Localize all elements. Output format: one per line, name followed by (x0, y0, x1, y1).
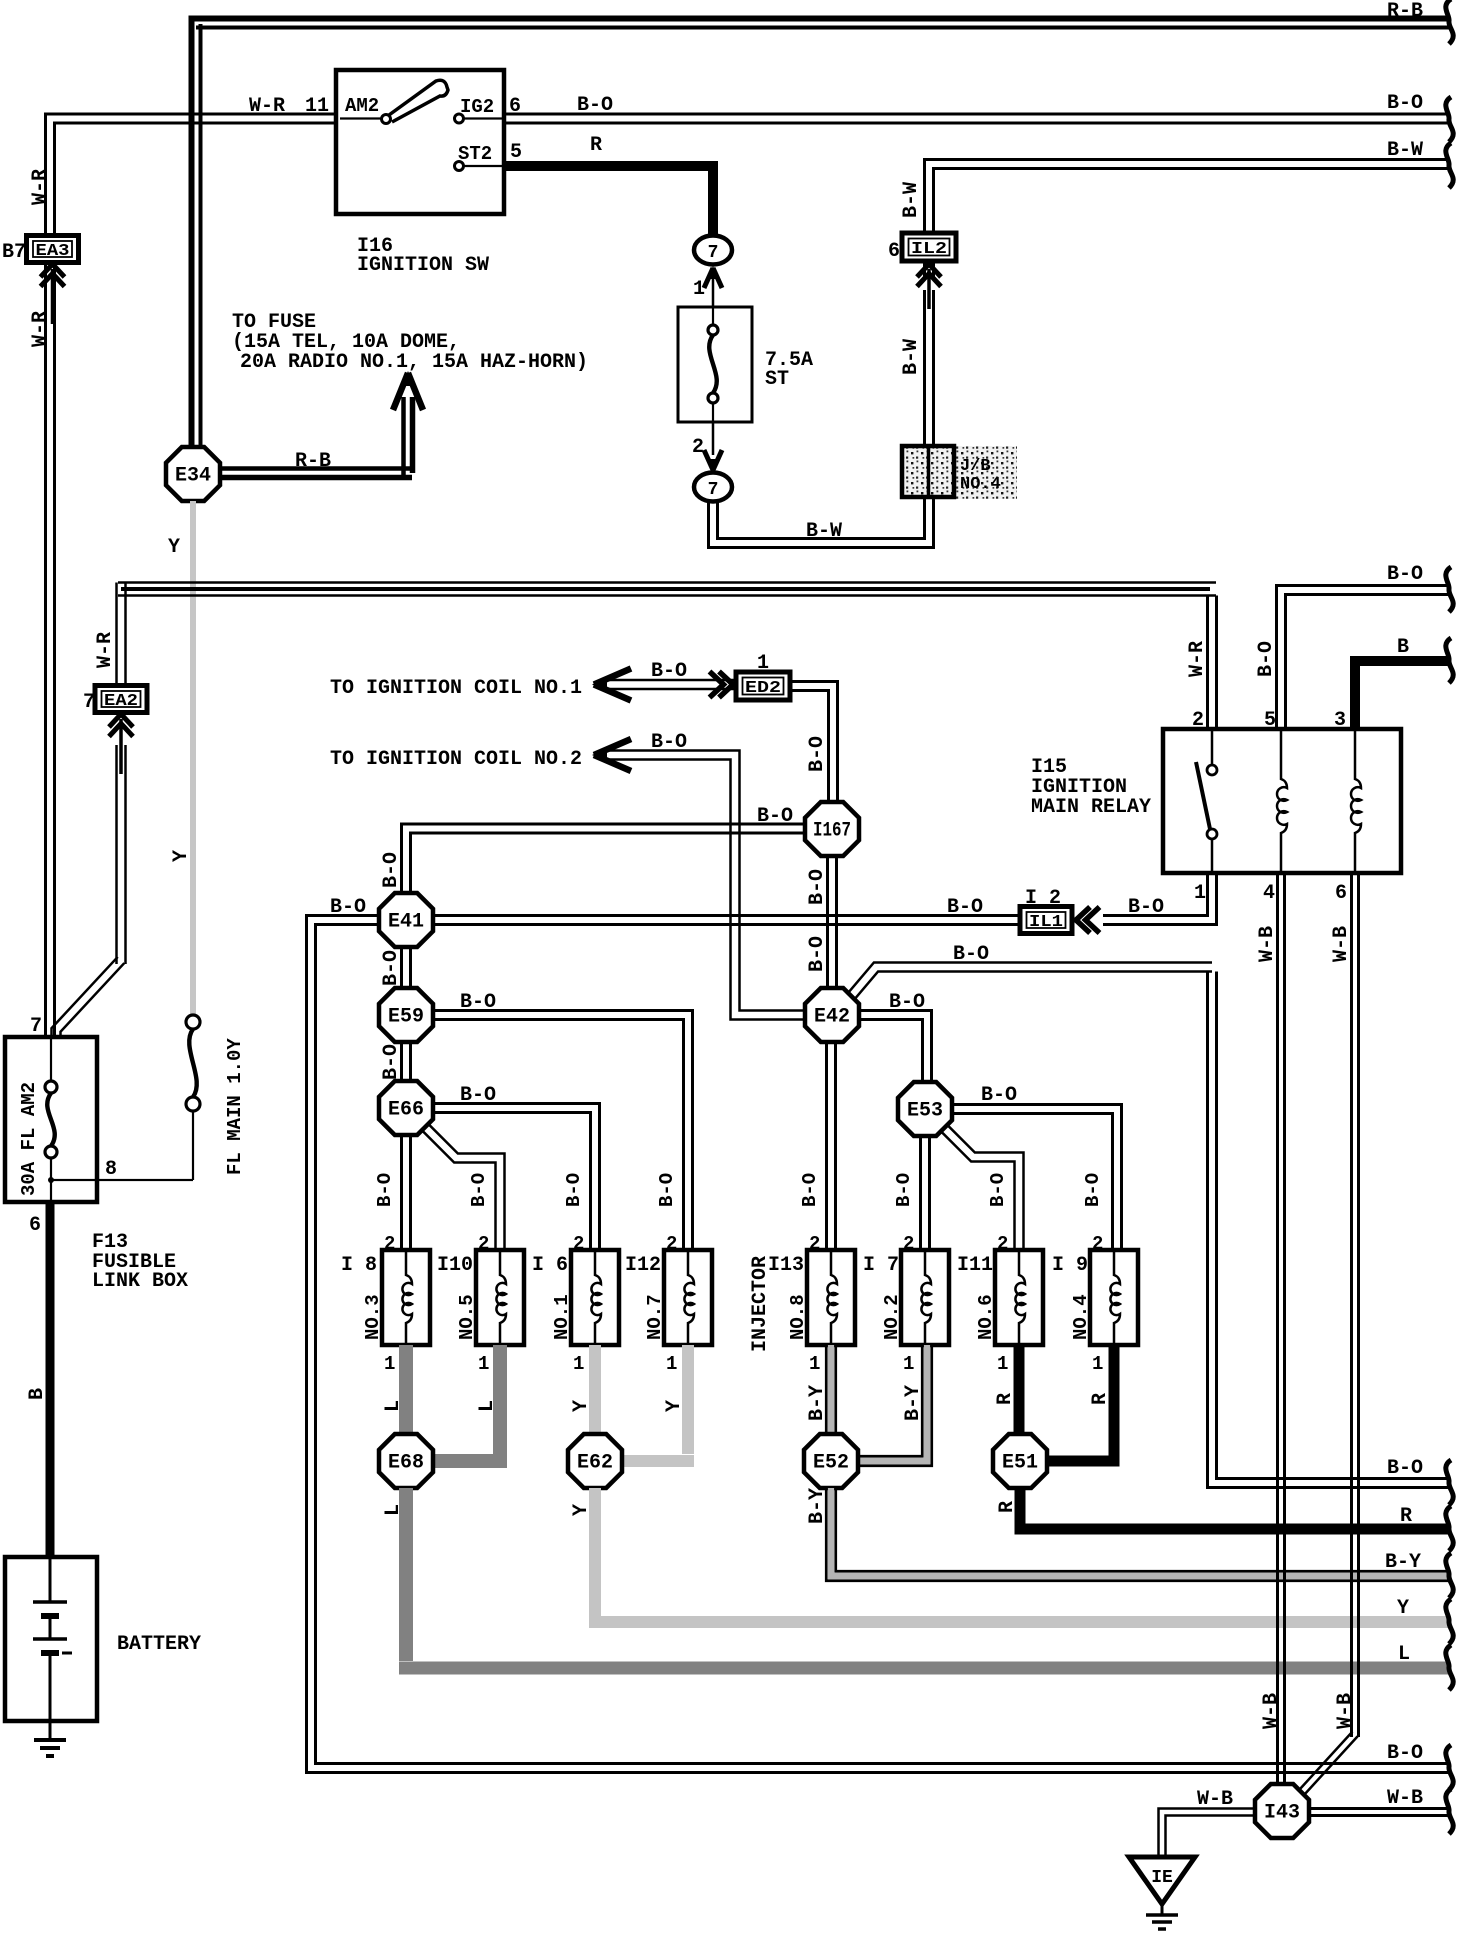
wire B-O (relay pin 5 to right edge) (1277, 586, 1450, 730)
injector I7 NO.2 (901, 1250, 949, 1345)
svg-text:W-B: W-B (1260, 1693, 1283, 1729)
svg-text:1: 1 (903, 1353, 914, 1375)
svg-text:W-R: W-R (29, 311, 52, 347)
svg-text:ST: ST (765, 368, 789, 391)
wire B-O (ED2 right, corner down to I167) (790, 682, 838, 803)
wire R-B trunk (top edge to right, corner down to E34) (192, 16, 1449, 22)
svg-text:5: 5 (510, 141, 522, 164)
wire L (injector NO.5 pin1 down, corner left to E68) (493, 1345, 507, 1454)
svg-text:I 7: I 7 (863, 1254, 899, 1277)
wire L (injector NO.3 pin1 down to E68) (399, 1345, 413, 1436)
wire (fuse junction to pin 8 and FL MAIN fuse) (51, 1179, 193, 1181)
svg-text:1: 1 (384, 1353, 395, 1375)
svg-text:E62: E62 (577, 1452, 613, 1475)
page connector arc W-B (1446, 1789, 1453, 1834)
page connector arc B-O (relay row) (1446, 567, 1453, 612)
svg-text:NO.2: NO.2 (881, 1294, 903, 1340)
svg-text:6: 6 (1335, 882, 1347, 905)
svg-text:B-W: B-W (900, 339, 923, 375)
svg-text:B-O: B-O (987, 1173, 1009, 1207)
svg-text:B-O: B-O (806, 869, 829, 905)
svg-text:1: 1 (693, 278, 705, 301)
battery box (5, 1557, 97, 1721)
connector IL2 (902, 233, 956, 261)
svg-text:I10: I10 (437, 1254, 473, 1277)
wire B-O (E42 down to injector NO.8) (825, 1042, 828, 1250)
terminal IG2 (455, 114, 464, 123)
svg-text:AM2: AM2 (345, 95, 379, 117)
svg-text:ST2: ST2 (458, 143, 492, 165)
wire Y (injector NO.1 pin1 down to E62) (589, 1345, 601, 1436)
svg-text:E66: E66 (388, 1099, 424, 1122)
injector I11 NO.6 (995, 1250, 1043, 1345)
wire B-Y (E52 down, corner right to right edge) (831, 1488, 1449, 1576)
svg-text:R: R (996, 1501, 1019, 1513)
wire W-R (EA2 down + diagonal to fusible link pin 7) (115, 745, 118, 964)
svg-text:6: 6 (888, 240, 900, 263)
wire B-O (E66 right, corner down to injector NO.1) (433, 1104, 600, 1251)
wire B-O (E53 diagonal to injector NO.6) (946, 1124, 1023, 1250)
svg-text:I11: I11 (957, 1254, 993, 1277)
wire B-O (ED2 to ignition coil NO.1, double-ended arrow) (600, 679, 736, 682)
svg-text:B-O: B-O (1387, 563, 1423, 586)
wire B-O (corner left of E41, down and along bottom to right edge) (316, 925, 1450, 1764)
svg-text:I13: I13 (768, 1254, 804, 1277)
connector EA2 (95, 686, 147, 713)
connector E68 (octagon) (379, 1434, 433, 1488)
svg-text:NO.4: NO.4 (960, 475, 1001, 494)
arrow down out of fuse (712, 422, 715, 455)
svg-text:NO.1: NO.1 (551, 1294, 573, 1340)
page connector arc B-O (IG2 row) (1446, 97, 1453, 142)
wire R (E51 down, corner right to right edge) (1020, 1488, 1449, 1529)
svg-text:E51: E51 (1002, 1452, 1038, 1475)
svg-text:B-O: B-O (374, 1173, 396, 1207)
connector E62 (octagon) (568, 1434, 622, 1488)
wire B-O (relay pin 1 down to IL1) (1103, 873, 1217, 925)
svg-text:1: 1 (478, 1353, 489, 1375)
svg-text:W-R: W-R (94, 632, 117, 668)
ignition switch I16 box (336, 70, 504, 214)
svg-text:NO.3: NO.3 (362, 1294, 384, 1340)
page connector arc R-B (right edge) (1446, 0, 1453, 44)
wire R (ST2 to 7.5A ST fuse, thick) (504, 166, 713, 238)
arrow chevrons below IL2 (917, 264, 941, 277)
wire Y (injector NO.7 pin1 down, corner left to E62) (682, 1345, 694, 1454)
svg-text:B-O: B-O (577, 94, 613, 117)
switch lever (AM2) (382, 115, 391, 124)
svg-text:E59: E59 (388, 1006, 424, 1029)
page connector arc B-O (E42 row) (1446, 1460, 1453, 1505)
svg-text:R: R (1089, 1393, 1112, 1405)
svg-text:1: 1 (666, 1353, 677, 1375)
injector I8 NO.3 (382, 1250, 430, 1345)
svg-text:FL MAIN 1.0Y: FL MAIN 1.0Y (224, 1038, 246, 1175)
svg-text:L: L (382, 1400, 405, 1412)
connector E41 (octagon) (379, 893, 433, 947)
ground symbol (IE) (1161, 1904, 1164, 1914)
svg-text:TO IGNITION COIL NO.2: TO IGNITION COIL NO.2 (330, 748, 582, 771)
svg-text:MAIN RELAY: MAIN RELAY (1031, 796, 1151, 819)
svg-text:B-O: B-O (893, 1173, 915, 1207)
svg-text:IE: IE (1151, 1868, 1173, 1888)
wire B-O (E66 diagonal to injector NO.5) (427, 1123, 504, 1250)
page connector arc L (1446, 1645, 1453, 1690)
arrow up into circle 7 (712, 268, 715, 307)
connector E59 (octagon) (379, 988, 433, 1042)
svg-text:W-R: W-R (1186, 641, 1209, 677)
wire B (F13 to battery, thick) (46, 1202, 55, 1557)
connector circle 7 (upper) (694, 236, 732, 265)
svg-text:7: 7 (708, 480, 719, 500)
connector E42 (octagon) (805, 988, 859, 1042)
wire B-O (E53 right, corner down to injector NO.4) (951, 1105, 1122, 1251)
svg-text:IGNITION SW: IGNITION SW (357, 254, 489, 277)
svg-text:B-O: B-O (806, 936, 829, 972)
svg-text:E42: E42 (814, 1006, 850, 1029)
svg-text:B-O: B-O (1255, 641, 1278, 677)
wire B-Y (injector NO.8 pin1 down to E52) (828, 1345, 834, 1436)
svg-text:NO.7: NO.7 (644, 1294, 666, 1340)
svg-text:Y: Y (570, 1400, 593, 1412)
svg-text:B-Y: B-Y (902, 1385, 925, 1421)
svg-text:Y: Y (170, 850, 193, 862)
svg-text:R: R (1400, 1505, 1412, 1528)
svg-text:L: L (382, 1504, 405, 1516)
svg-text:I 2: I 2 (1025, 887, 1061, 910)
injector I13 NO.8 (807, 1250, 855, 1345)
wire W-B (I43 left, corner down to IE) (1166, 1816, 1256, 1857)
arrow chevrons below EA3 (41, 264, 65, 277)
svg-text:Y: Y (168, 536, 180, 559)
svg-text:I 6: I 6 (532, 1254, 568, 1277)
wire B-O (E53 down to injector NO.2) (919, 1136, 922, 1250)
svg-text:20A RADIO NO.1, 15A HAZ-HORN): 20A RADIO NO.1, 15A HAZ-HORN) (240, 351, 588, 374)
svg-text:B-O: B-O (656, 1173, 678, 1207)
page connector arc B (1446, 638, 1453, 683)
svg-text:B-O: B-O (981, 1084, 1017, 1107)
page connector arc B-W (1446, 143, 1453, 188)
svg-text:7: 7 (708, 243, 719, 263)
svg-text:2: 2 (384, 1233, 395, 1255)
svg-text:B-O: B-O (1128, 896, 1164, 919)
wire B-O (to ignition coil NO.2, corner down to E42 row) (600, 751, 805, 1011)
svg-text:B-Y: B-Y (1385, 1551, 1421, 1574)
arrow chevrons at IL1 (1076, 907, 1090, 933)
svg-text:E41: E41 (388, 911, 424, 934)
svg-text:TO IGNITION COIL NO.1: TO IGNITION COIL NO.1 (330, 677, 582, 700)
svg-text:7: 7 (30, 1015, 42, 1038)
svg-text:B-O: B-O (563, 1173, 585, 1207)
wire B-Y (injector NO.2 pin1 down, corner left to E52) (856, 1345, 927, 1461)
svg-text:B-O: B-O (1387, 1742, 1423, 1765)
wire B-O (E66 down to injector NO.3) (400, 1135, 403, 1250)
svg-text:L: L (476, 1400, 499, 1412)
svg-text:EA2: EA2 (104, 692, 138, 711)
terminal ST2 (455, 162, 464, 171)
connector I167 (octagon) (805, 802, 859, 856)
svg-text:B-O: B-O (1387, 92, 1423, 115)
svg-text:E34: E34 (175, 465, 211, 488)
svg-text:B-O: B-O (889, 991, 925, 1014)
wire B-O (E42 diagonal up-right, to right edge via bottom corner) (845, 963, 1212, 998)
svg-text:E53: E53 (907, 1100, 943, 1123)
wire W-R (corner above EA2 to ignition main relay pin 2) (118, 581, 1216, 584)
svg-text:R: R (590, 134, 602, 157)
wire B-O (E41 row horizontal to IL1) (433, 914, 1021, 917)
page connector arc B-O (bottom row) (1446, 1745, 1453, 1790)
svg-text:2: 2 (692, 436, 704, 459)
connector ED2 (736, 672, 790, 700)
wire Y (E62 down, corner right to right edge) (589, 1488, 601, 1616)
svg-text:B-O: B-O (330, 896, 366, 919)
svg-text:I 8: I 8 (341, 1254, 377, 1277)
svg-text:IL1: IL1 (1029, 913, 1063, 932)
fuse FL MAIN 1.0Y (186, 1015, 200, 1029)
relay I15 box (1163, 729, 1401, 873)
svg-text:1: 1 (997, 1353, 1008, 1375)
svg-text:NO.6: NO.6 (975, 1294, 997, 1340)
svg-text:W-R: W-R (29, 169, 52, 205)
svg-text:B-Y: B-Y (806, 1488, 829, 1524)
connector E53 (octagon) (898, 1082, 952, 1136)
wire B-O (E42 right, corner down to E53) (859, 1011, 932, 1083)
svg-text:I167: I167 (813, 820, 851, 843)
connector E52 (octagon) (804, 1434, 858, 1488)
svg-text:B-O: B-O (651, 731, 687, 754)
wire B-O (IG2 to right edge) (504, 113, 1449, 116)
svg-text:1: 1 (1194, 882, 1206, 905)
connector I43 (octagon) (1255, 1784, 1309, 1838)
svg-text:2: 2 (997, 1233, 1008, 1255)
svg-text:B-W: B-W (806, 520, 842, 543)
wire W-B (relay pin 6 down, diagonal into I43) (1350, 873, 1353, 1737)
svg-text:Y: Y (663, 1400, 686, 1412)
junction block J/B NO.4 (955, 446, 1017, 499)
connector EA3 (27, 236, 79, 263)
svg-text:4: 4 (1263, 882, 1275, 905)
svg-text:NO.5: NO.5 (456, 1294, 478, 1340)
connector E34 (octagon) (166, 447, 220, 501)
svg-text:Y: Y (570, 1504, 593, 1516)
svg-text:B-O: B-O (757, 805, 793, 828)
svg-text:7: 7 (83, 691, 95, 714)
svg-text:ED2: ED2 (745, 679, 781, 698)
svg-text:W-B: W-B (1334, 1693, 1357, 1729)
svg-text:B-O: B-O (460, 1084, 496, 1107)
svg-text:W-B: W-B (1197, 1788, 1233, 1811)
arrow chevrons below EA2 (109, 714, 133, 727)
injector I6 NO.1 (571, 1250, 619, 1345)
wire R (injector NO.6 pin1 down to E51) (1014, 1345, 1025, 1436)
wire B-O (E59 right, corner down to injector NO.7) (433, 1011, 693, 1251)
arrow to fuse block (393, 373, 408, 410)
svg-text:8: 8 (105, 1158, 117, 1181)
svg-text:BATTERY: BATTERY (117, 1633, 201, 1656)
svg-text:B-O: B-O (1387, 1457, 1423, 1480)
svg-text:1: 1 (757, 652, 769, 675)
wire W-R (AM2 pin11 horizontal + left vertical to fusible link box) (55, 123, 337, 1037)
svg-text:R-B: R-B (295, 450, 331, 473)
svg-text:B-W: B-W (900, 182, 923, 218)
svg-text:E68: E68 (388, 1452, 424, 1475)
fuse 30A FL AM2 (element) (50, 1037, 52, 1081)
wire B-O (E41 down to E59) (400, 947, 403, 988)
svg-text:1: 1 (809, 1353, 820, 1375)
wire Y (E34 to FL MAIN fuse) (190, 501, 196, 1016)
svg-text:2: 2 (478, 1233, 489, 1255)
injector I9 NO.4 (1090, 1250, 1138, 1345)
svg-text:B-O: B-O (806, 736, 829, 772)
fuse 7.5A ST box (678, 307, 752, 422)
svg-text:W-B: W-B (1256, 926, 1279, 962)
svg-text:B-O: B-O (460, 991, 496, 1014)
relay switch contacts (1211, 729, 1214, 764)
wire B-O (E59 down to E66) (400, 1042, 403, 1081)
relay coil (pins 3-6) (1351, 729, 1361, 873)
svg-text:IL2: IL2 (911, 240, 947, 259)
wire B-O (E41 up, corner right to I167) (402, 824, 806, 893)
wire R-B (E34 to TO FUSE arrow) (215, 466, 412, 471)
injector I10 NO.5 (476, 1250, 524, 1345)
svg-text:I 9: I 9 (1052, 1254, 1088, 1277)
svg-text:B-O: B-O (651, 660, 687, 683)
svg-text:B-Y: B-Y (806, 1385, 829, 1421)
svg-text:6: 6 (509, 95, 521, 118)
svg-text:L: L (1398, 1643, 1410, 1666)
svg-text:B-O: B-O (953, 943, 989, 966)
svg-text:B-O: B-O (380, 950, 403, 986)
wire L (E68 down, corner right to right edge) (399, 1488, 413, 1661)
wire W-B (relay pin 4 down to I43) (1276, 873, 1279, 1790)
svg-text:LINK BOX: LINK BOX (92, 1270, 188, 1293)
wire B (right edge to relay pin 3, thick) (1355, 661, 1449, 729)
relay coil (pins 5-4) (1277, 729, 1287, 873)
svg-text:IG2: IG2 (460, 96, 494, 118)
svg-text:B7: B7 (2, 241, 26, 264)
svg-text:B: B (1397, 636, 1409, 659)
svg-text:B: B (26, 1388, 49, 1400)
wire B-O (I167 down to E42) (826, 856, 829, 988)
connector E51 (octagon) (993, 1434, 1047, 1488)
ground connector IE (triangle) (1129, 1857, 1195, 1904)
svg-text:6: 6 (29, 1214, 41, 1237)
svg-text:2: 2 (903, 1233, 914, 1255)
fusible link box F13 (5, 1037, 97, 1202)
svg-text:1: 1 (1092, 1353, 1103, 1375)
ground symbol (battery) (49, 1721, 52, 1739)
svg-text:2: 2 (1092, 1233, 1103, 1255)
svg-text:R-B: R-B (1387, 0, 1423, 23)
fuse element 7.5A ST (712, 307, 714, 325)
svg-text:NO.8: NO.8 (787, 1294, 809, 1340)
svg-text:2: 2 (666, 1233, 677, 1255)
svg-text:E52: E52 (813, 1452, 849, 1475)
svg-text:Y: Y (1397, 1597, 1409, 1620)
page connector arc R (1446, 1506, 1453, 1551)
svg-text:W-B: W-B (1330, 926, 1353, 962)
svg-text:B-O: B-O (468, 1173, 490, 1207)
svg-text:W-R: W-R (249, 95, 285, 118)
svg-text:B-W: B-W (1387, 139, 1423, 162)
connector circle 7 (lower) (694, 473, 732, 502)
connector E66 (octagon) (379, 1081, 433, 1135)
wire W-B (I43 right to edge) (1309, 1807, 1449, 1810)
svg-text:B-O: B-O (1082, 1173, 1104, 1207)
svg-text:11: 11 (305, 95, 329, 118)
svg-text:R: R (994, 1393, 1017, 1405)
svg-text:B-O: B-O (380, 852, 403, 888)
page connector arc Y (1446, 1599, 1453, 1644)
injector I12 NO.7 (664, 1250, 712, 1345)
svg-text:2: 2 (809, 1233, 820, 1255)
svg-text:1: 1 (573, 1353, 584, 1375)
battery cells (49, 1557, 52, 1601)
svg-text:NO.4: NO.4 (1070, 1294, 1092, 1340)
wire B-W (circle 7 down, right, up through J/B to IL2 and right edge) (718, 497, 925, 539)
svg-text:I43: I43 (1264, 1802, 1300, 1825)
svg-text:2: 2 (573, 1233, 584, 1255)
wire R (injector NO.4 pin1 down, corner left to E51) (1046, 1345, 1114, 1461)
page connector arc B-Y (1446, 1553, 1453, 1598)
svg-text:B-O: B-O (380, 1044, 403, 1080)
svg-text:INJECTOR: INJECTOR (749, 1256, 772, 1352)
svg-text:W-B: W-B (1387, 1787, 1423, 1810)
connector IL1 (1020, 907, 1072, 934)
svg-text:30A FL AM2: 30A FL AM2 (18, 1082, 40, 1196)
svg-text:I12: I12 (625, 1254, 661, 1277)
svg-text:B-O: B-O (799, 1173, 821, 1207)
svg-text:J/B: J/B (960, 457, 991, 476)
svg-text:EA3: EA3 (36, 242, 70, 261)
